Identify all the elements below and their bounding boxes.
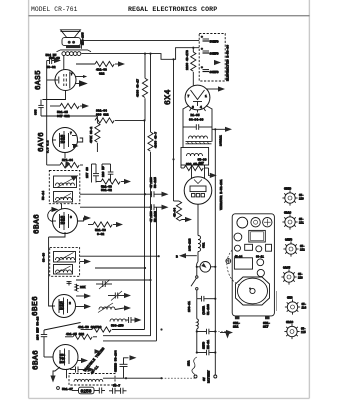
svg-text:051: 051: [203, 242, 206, 248]
wire: left arrow tap: [176, 253, 197, 258]
socket V5 layout: [235, 245, 241, 251]
svg-text:0-02: 0-02: [97, 233, 104, 236]
svg-text:501-07: 501-07: [62, 388, 73, 391]
trimmer capacitor C7: [96, 280, 112, 290]
capacitor C5: [102, 164, 113, 181]
svg-text:15A: 15A: [188, 360, 191, 366]
svg-text:022: 022: [99, 73, 105, 76]
wire: power bus down: [197, 204, 199, 235]
trimmer layout: [245, 244, 253, 250]
wire: [197, 252, 199, 262]
capacitor C18: [196, 340, 217, 356]
svg-text:45-04: 45-04: [174, 208, 177, 217]
wire: [196, 299, 198, 319]
node: screen/filter junction: [192, 47, 194, 49]
wire: AVC bus vertical: [144, 120, 146, 329]
svg-text:50MFD: 50MFD: [210, 41, 219, 44]
svg-text:50-02: 50-02: [47, 66, 56, 69]
svg-text:22K: 22K: [80, 286, 86, 289]
wire: screen bus vertical: [156, 207, 158, 341]
wire: screen bus: [82, 48, 200, 60]
svg-text:110: 110: [61, 141, 66, 144]
svg-text:REGAL ELECTRONICS CORP: REGAL ELECTRONICS CORP: [128, 6, 217, 13]
switch SW1: [191, 267, 198, 299]
IF transformer T3: [42, 171, 80, 204]
speaker layout: [236, 277, 270, 305]
socket V4 layout: [234, 233, 242, 241]
svg-text:571-04: 571-04: [62, 159, 73, 162]
chassis feet: [235, 316, 240, 319]
wire: IF bypass line 1: [80, 191, 169, 197]
wire: converter B+ lines: [80, 255, 159, 257]
wire: ground bus bottom: [103, 377, 197, 379]
wire: volume wiper to C1: [46, 61, 48, 166]
trimmer capacitor C8: [108, 291, 131, 301]
wire: plate arrow: [78, 358, 88, 363]
resistor R15: [174, 201, 193, 222]
svg-text:7: 7: [70, 132, 72, 135]
tube V4 6BE6: [52, 295, 76, 318]
resistor R4 cathode: [50, 103, 89, 118]
tube V5 6BA6 RF: [53, 345, 78, 370]
capacitor C17: [196, 304, 230, 339]
svg-text:50-14: 50-14: [42, 191, 45, 200]
svg-text:(20MA: (20MA: [202, 306, 206, 315]
svg-text:7: 7: [188, 95, 190, 98]
resistor R2 4800 dropping: [137, 78, 148, 120]
svg-text:110: 110: [60, 308, 65, 311]
svg-text:461-08: 461-08: [96, 69, 107, 72]
svg-text:111: 111: [299, 222, 304, 225]
resistor R13 2200 filter: [186, 48, 196, 86]
fuse F1 15A: [188, 357, 197, 375]
svg-text:051-: 051-: [233, 322, 240, 325]
svg-text:114: 114: [302, 307, 307, 310]
power transformer T5: [181, 134, 223, 166]
tube V6 6X4: [185, 85, 210, 112]
resistor R14 280: [181, 163, 217, 178]
svg-text:2MFD: 2MFD: [203, 342, 206, 349]
wire: heater loop with C15: [183, 106, 212, 134]
resistor R12: [65, 333, 97, 340]
svg-text:6X4: 6X4: [164, 89, 173, 105]
svg-text:111: 111: [233, 326, 239, 329]
svg-text:6BA6: 6BA6: [286, 321, 293, 324]
AC plug P1: [184, 165, 223, 210]
svg-text:501-05: 501-05: [57, 111, 68, 114]
power transformer layout: [234, 258, 252, 269]
tube V3 6BA6 IF: [53, 209, 78, 234]
svg-text:257 30: 257 30: [86, 167, 89, 178]
IF can layout: [249, 230, 265, 242]
svg-text:50-115: 50-115: [154, 177, 157, 188]
resistor R6: [95, 110, 146, 124]
svg-text:148-113: 148-113: [189, 238, 192, 251]
svg-text:801-04: 801-04: [96, 110, 107, 113]
svg-text:39-40: 39-40: [43, 253, 46, 262]
wire: IF bypass line 2: [80, 204, 169, 210]
svg-text:113: 113: [298, 277, 303, 280]
svg-text:VIBRATOR N-52-101: VIBRATOR N-52-101: [220, 179, 223, 210]
resistor R3 4800: [148, 132, 158, 336]
svg-text:4800 49-17: 4800 49-17: [137, 79, 140, 97]
svg-text:50C-15C: 50C-15C: [111, 325, 124, 328]
svg-text:115: 115: [301, 331, 306, 334]
capacitor C10: [70, 367, 95, 373]
svg-text:40-11: 40-11: [90, 365, 100, 375]
svg-text:3: 3: [192, 106, 194, 109]
svg-text:6X4: 6X4: [287, 297, 293, 300]
wire: B- vertical: [161, 330, 163, 379]
resistor R8: [96, 179, 131, 192]
svg-text:50-7: 50-7: [113, 385, 120, 388]
tube V1 6AS5: [47, 70, 88, 91]
svg-text:047 022: 047 022: [57, 115, 70, 118]
capacitor C16: [188, 296, 216, 312]
resistor R5 470K plate load: [90, 116, 100, 152]
oscillator coil L2: [98, 303, 131, 313]
wire: 6BE6 feed from T1: [49, 237, 53, 306]
wire: [150, 54, 152, 132]
wire: 6AV6 top feeds: [101, 164, 103, 170]
potentiometer R7 volume: [47, 153, 83, 170]
svg-text:BATTERY: BATTERY: [208, 370, 211, 383]
svg-text:6AS5: 6AS5: [283, 267, 290, 270]
wire: AVC line: [41, 115, 97, 117]
wire: dial cord hint: [276, 291, 278, 311]
svg-text:99-11: 99-11: [256, 256, 264, 259]
svg-text:501-02: 501-02: [101, 189, 112, 192]
wire: T1 out arrow: [80, 259, 91, 264]
wire: cathode down arrow: [50, 367, 60, 383]
svg-text:ELECTROLYTIC N-50-30: ELECTROLYTIC N-50-30: [227, 45, 230, 81]
svg-text:6AS5: 6AS5: [35, 70, 43, 90]
resistor R11: [78, 326, 145, 332]
resistor R1 screen: [76, 61, 125, 75]
svg-text:6AV6: 6AV6: [285, 239, 292, 242]
capacitor C1 grid coupling: [46, 54, 62, 69]
svg-text:504 MF: 504 MF: [46, 54, 57, 57]
svg-text:521-50: 521-50: [95, 229, 106, 232]
IF transformer T1: [43, 247, 80, 276]
socket V3 layout: [263, 218, 272, 227]
oscillator coil L3 with padder: [110, 317, 142, 328]
svg-text:6BE6: 6BE6: [284, 188, 291, 191]
capacitor C4: [86, 164, 99, 183]
wire: B+ bus top: [82, 40, 200, 42]
svg-text:+: +: [201, 36, 203, 39]
wire: grid arrow: [48, 204, 62, 222]
speaker SP1: [61, 30, 85, 46]
svg-text:51-103: 51-103: [207, 304, 210, 315]
wire: [144, 54, 146, 79]
tube base diagram V2 6AV6: [283, 239, 305, 257]
svg-text:6AV6: 6AV6: [38, 132, 46, 152]
choke L5: [197, 319, 199, 353]
wire: left HV bus: [172, 58, 174, 201]
svg-text:481-05 022: 481-05 022: [66, 333, 84, 336]
capacitor C13 AVC: [115, 350, 137, 378]
electrolytic C14 A/B/C: [199, 34, 229, 82]
tube V2 6AV6: [53, 128, 79, 153]
svg-text:04-94-00: 04-94-00: [189, 119, 204, 122]
svg-text:4: 4: [200, 106, 202, 109]
svg-text:280 05-08: 280 05-08: [186, 163, 202, 166]
wire: cathode arrow: [207, 86, 225, 91]
svg-text:6BA6: 6BA6: [33, 350, 41, 370]
choke L4: [189, 236, 206, 252]
pilot lamp PL1: [196, 262, 217, 273]
svg-text:1: 1: [205, 95, 207, 98]
svg-text:6BA6: 6BA6: [34, 214, 42, 234]
svg-text:30MFD: 30MFD: [210, 71, 219, 74]
svg-text:30MFD: 30MFD: [210, 53, 219, 56]
svg-text:0250: 0250: [81, 388, 92, 394]
svg-text:47.150: 47.150: [150, 211, 153, 222]
wire: bus turns bottom: [103, 336, 157, 341]
capacitor C6: [67, 281, 72, 286]
svg-text:112: 112: [300, 249, 305, 252]
terminal: antenna lug: [57, 387, 60, 390]
svg-text:2: 2: [69, 302, 71, 305]
svg-text:470K 68-2: 470K 68-2: [90, 127, 93, 143]
svg-text:6: 6: [70, 216, 72, 219]
svg-text:310: 310: [60, 361, 66, 364]
resistor R10 osc grid: [75, 284, 86, 292]
capacitor C12 pair: [109, 385, 127, 394]
svg-text:110: 110: [61, 222, 66, 225]
svg-text:051-: 051-: [263, 322, 270, 325]
tube base diagram V4 6BE6: [282, 188, 304, 206]
svg-text:140111: 140111: [220, 135, 223, 146]
tube base diagram V6 6X4: [285, 297, 307, 315]
svg-text:7: 7: [71, 73, 73, 76]
svg-text:NE-11: NE-11: [207, 340, 210, 349]
svg-text:6.0 6.3: 6.0 6.3: [47, 140, 50, 153]
svg-text:CEMKO 50-104: CEMKO 50-104: [115, 350, 118, 372]
wire: mixer arrows: [76, 293, 91, 309]
svg-text:MODEL CR-761: MODEL CR-761: [31, 6, 78, 13]
phono jack: [226, 259, 231, 264]
node: bus junction: [144, 53, 146, 55]
socket V6 layout: [256, 246, 262, 252]
svg-text:4800 49-7: 4800 49-7: [155, 132, 158, 148]
loop antenna dashed: [227, 250, 241, 286]
svg-text:005: 005: [35, 109, 38, 115]
header rule: [29, 15, 310, 17]
capacitor C2 cathode bypass: [35, 100, 44, 117]
svg-text:461-50 000700: 461-50 000700: [78, 326, 102, 329]
tube base diagram V3 6BA6: [282, 212, 304, 230]
loop antenna L1: [67, 370, 116, 386]
capacitor C11: [95, 349, 106, 393]
output transformer T4: [49, 45, 91, 60]
wire: 6AS5 cathode: [42, 91, 65, 100]
coil box 0250: [72, 387, 99, 394]
svg-text:47.150: 47.150: [150, 177, 153, 188]
svg-text:+: +: [201, 66, 203, 69]
capacitor C9: [37, 316, 53, 357]
electrolytic layout: [257, 259, 264, 266]
node: [149, 53, 151, 55]
wire: heater bus arrow: [212, 127, 232, 132]
svg-text:117: 117: [263, 326, 269, 329]
svg-text:6BE6: 6BE6: [32, 296, 40, 316]
tube layout: [257, 269, 264, 276]
wire: T4 right lead up to B+ bus: [81, 41, 83, 49]
svg-text:6BA6: 6BA6: [284, 212, 291, 215]
pointer arrow: [220, 332, 226, 334]
svg-text:110: 110: [299, 198, 304, 201]
resistor R9 plate: [78, 215, 124, 236]
wire: right B bus: [214, 129, 216, 352]
svg-text:100 MMF 50-13: 100 MMF 50-13: [37, 316, 40, 340]
battery terminals: [194, 353, 217, 384]
tube base diagram V1 6AS5: [281, 267, 303, 285]
svg-text:+: +: [201, 48, 203, 51]
svg-text:2200 49-178: 2200 49-178: [186, 50, 189, 70]
socket V1 layout: [237, 217, 248, 228]
svg-text:103-11: 103-11: [188, 301, 191, 312]
svg-text:B1-05: B1-05: [191, 114, 200, 117]
svg-text:000 022: 000 022: [96, 114, 109, 117]
wire: diode plate return: [78, 138, 83, 142]
trimmer layout 2: [266, 244, 272, 251]
svg-text:6V: 6V: [203, 377, 206, 381]
wire: diagonal grid return: [44, 323, 81, 331]
socket V2 layout: [251, 218, 260, 227]
chassis layout top view: [220, 214, 274, 335]
svg-text:B: B: [176, 256, 178, 259]
wire: plate lead 6AS5 to T4: [63, 56, 65, 70]
tube base diagram V5 6BA6: [284, 321, 306, 339]
